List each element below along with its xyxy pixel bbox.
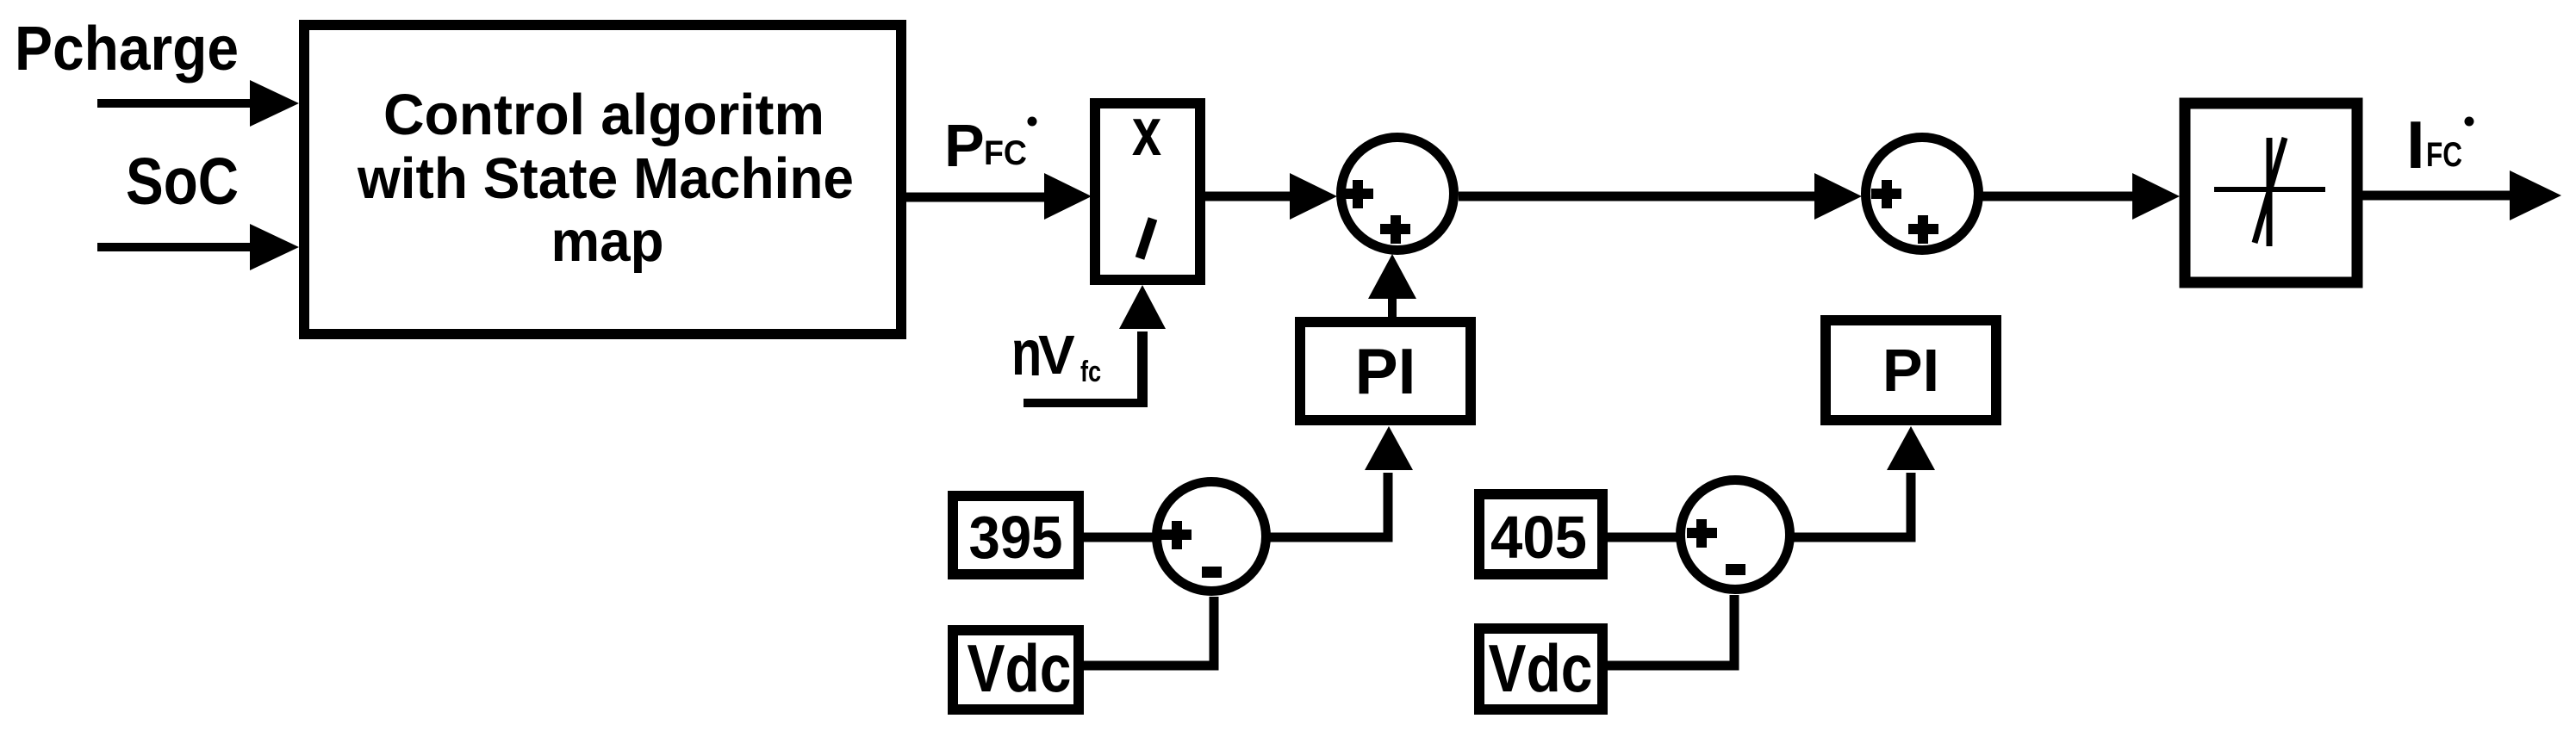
svg-text:V: V — [1038, 324, 1075, 386]
svg-text:fc: fc — [1080, 355, 1101, 388]
svg-text:Control algoritm: Control algoritm — [383, 83, 824, 147]
svg-text:FC: FC — [984, 134, 1027, 172]
svg-text:405: 405 — [1490, 504, 1587, 571]
svg-text:I: I — [2406, 107, 2425, 183]
svg-text:x: x — [1132, 95, 1161, 170]
svg-text:PI: PI — [1355, 335, 1416, 407]
svg-text:map: map — [551, 209, 664, 274]
svg-text:PI: PI — [1882, 337, 1939, 404]
svg-text:FC: FC — [2426, 136, 2462, 174]
svg-text:Vdc: Vdc — [968, 630, 1072, 706]
svg-text:Vdc: Vdc — [1489, 630, 1593, 706]
svg-text:SoC: SoC — [126, 145, 239, 219]
svg-text:with State Machine: with State Machine — [357, 146, 854, 211]
svg-text:P: P — [944, 112, 985, 179]
svg-text:Pcharge: Pcharge — [15, 15, 239, 84]
svg-text:395: 395 — [969, 504, 1063, 571]
